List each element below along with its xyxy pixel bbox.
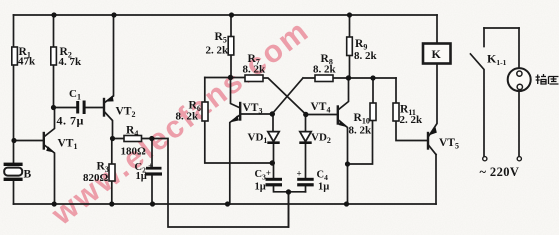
svg-text:1µ: 1µ bbox=[318, 182, 329, 193]
svg-text:1µ: 1µ bbox=[136, 171, 147, 182]
svg-text:2. 2k: 2. 2k bbox=[206, 45, 230, 57]
svg-text:2. 2k: 2. 2k bbox=[400, 114, 424, 126]
svg-text:8. 2k: 8. 2k bbox=[243, 64, 267, 76]
svg-text:~ 220V: ~ 220V bbox=[480, 165, 520, 179]
svg-text:8. 2k: 8. 2k bbox=[349, 125, 373, 137]
svg-text:8. 2k: 8. 2k bbox=[313, 64, 337, 76]
svg-text:1µ: 1µ bbox=[255, 182, 266, 193]
svg-text:820Ω: 820Ω bbox=[83, 172, 109, 184]
svg-text:K: K bbox=[432, 47, 442, 61]
svg-text:B: B bbox=[24, 169, 32, 181]
svg-text:4. 7µ: 4. 7µ bbox=[57, 114, 84, 128]
svg-text:+: + bbox=[297, 169, 302, 179]
svg-text:4. 7k: 4. 7k bbox=[59, 56, 83, 68]
svg-text:8. 2k: 8. 2k bbox=[354, 50, 378, 62]
svg-text:8. 2k: 8. 2k bbox=[176, 111, 200, 123]
svg-text:47k: 47k bbox=[18, 56, 36, 68]
svg-text:180Ω: 180Ω bbox=[121, 146, 147, 158]
